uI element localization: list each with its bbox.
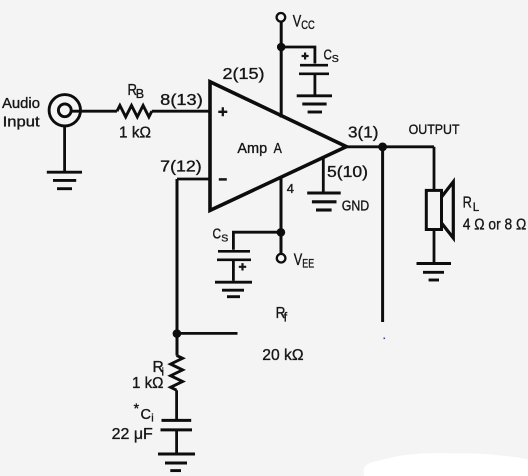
ground (pin 5) (307, 193, 341, 210)
svg-text:S: S (221, 232, 228, 244)
label Rf (276, 305, 288, 325)
svg-text:C: C (324, 47, 332, 63)
wire RB to op-amp + input (152, 110, 210, 113)
ground (speaker) (417, 264, 452, 281)
wire output (346, 145, 434, 148)
speaker RL cone (442, 182, 454, 238)
junction dot (VEE rail) (277, 228, 286, 237)
plus sign (CS bottom) (239, 263, 246, 270)
svg-text:1 kΩ: 1 kΩ (119, 125, 151, 142)
svg-text:GND: GND (342, 199, 370, 215)
svg-text:i: i (151, 413, 153, 425)
label *Ci (134, 400, 154, 425)
resistor Ri (171, 355, 183, 390)
svg-text:20 kΩ: 20 kΩ (262, 347, 303, 364)
white-out blob bottom right (364, 453, 528, 476)
wire speaker to ground (433, 230, 436, 263)
capacitor Ci (161, 420, 193, 430)
ground (CS top) (297, 96, 332, 112)
svg-text:L: L (473, 202, 480, 214)
ground (CS bottom) (215, 282, 252, 297)
ground (audio input) (47, 172, 82, 189)
svg-text:Input: Input (3, 114, 40, 130)
svg-text:4: 4 (287, 181, 294, 196)
svg-text:B: B (136, 87, 144, 101)
svg-text:C: C (213, 226, 222, 242)
wire inverting input (177, 178, 210, 181)
svg-text:4 Ω or 8 Ω: 4 Ω or 8 Ω (463, 216, 527, 233)
label CS (top) (324, 47, 339, 65)
svg-text:V: V (294, 251, 303, 269)
wire pin 5(10) down (322, 158, 325, 192)
wire CS bottom to ground (232, 261, 235, 281)
svg-text:C: C (141, 407, 151, 423)
svg-text:CC: CC (301, 20, 315, 32)
plus sign (non-inverting input) (218, 107, 227, 116)
svg-text:2(15): 2(15) (223, 66, 265, 83)
stray blue dot artifact (384, 338, 386, 340)
wire output down to speaker (433, 147, 436, 190)
wire CS to ground (313, 75, 316, 95)
wire pin4 to VEE (280, 177, 283, 254)
svg-text:22 μF: 22 μF (112, 426, 153, 443)
svg-text:A: A (274, 141, 282, 157)
wire VCC junction to CS (281, 47, 315, 64)
VCC terminal circle (277, 13, 286, 22)
wire feedback from output down (stub) (381, 147, 384, 322)
label VCC (293, 13, 315, 33)
junction dot (feedback node) (173, 329, 182, 338)
label CS (bottom) (213, 226, 229, 244)
label Ri (153, 359, 164, 378)
svg-text:OUTPUT: OUTPUT (409, 121, 460, 137)
svg-text:EE: EE (302, 259, 314, 271)
svg-text:8(13): 8(13) (160, 92, 203, 109)
junction dot (VCC rail) (277, 43, 286, 52)
wire Ci to ground (175, 431, 178, 453)
plus sign (CS top) (302, 53, 309, 60)
capacitor CS (VEE bypass) (217, 251, 251, 259)
capacitor CS (VCC bypass) (299, 65, 329, 74)
audio input jack J1 (49, 95, 80, 126)
svg-text:f: f (284, 310, 288, 324)
svg-text:V: V (293, 13, 302, 31)
svg-text:*: * (134, 400, 140, 416)
resistor RB (117, 106, 152, 117)
VEE terminal circle (277, 254, 286, 263)
junction dot (output) (378, 143, 387, 152)
svg-text:5(10): 5(10) (327, 164, 368, 181)
label VEE (294, 251, 315, 271)
wire VEE junction to CS bottom (233, 232, 281, 250)
label RB (128, 82, 145, 101)
wire feedback stub right (177, 332, 238, 335)
wire inverting node down (176, 179, 179, 356)
ground (Ci) (158, 454, 195, 471)
wire jack stem down (63, 126, 66, 171)
op-amp U1 (Amp A) triangle (210, 82, 346, 211)
label Audio Input (2, 96, 40, 131)
svg-text:Amp: Amp (237, 141, 267, 157)
svg-text:7(12): 7(12) (160, 159, 202, 176)
svg-text:Audio: Audio (2, 96, 40, 112)
speaker RL body (426, 190, 441, 229)
svg-text:3(1): 3(1) (348, 125, 378, 142)
minus sign (inverting input) (219, 178, 227, 181)
svg-text:1 kΩ: 1 kΩ (132, 375, 164, 392)
label RL (463, 195, 480, 214)
wire Ri to Ci (175, 390, 178, 419)
svg-text:R: R (463, 195, 472, 212)
wire jack to RB (72, 110, 117, 113)
wire pin2 to VCC (280, 23, 283, 118)
svg-text:S: S (332, 53, 339, 65)
